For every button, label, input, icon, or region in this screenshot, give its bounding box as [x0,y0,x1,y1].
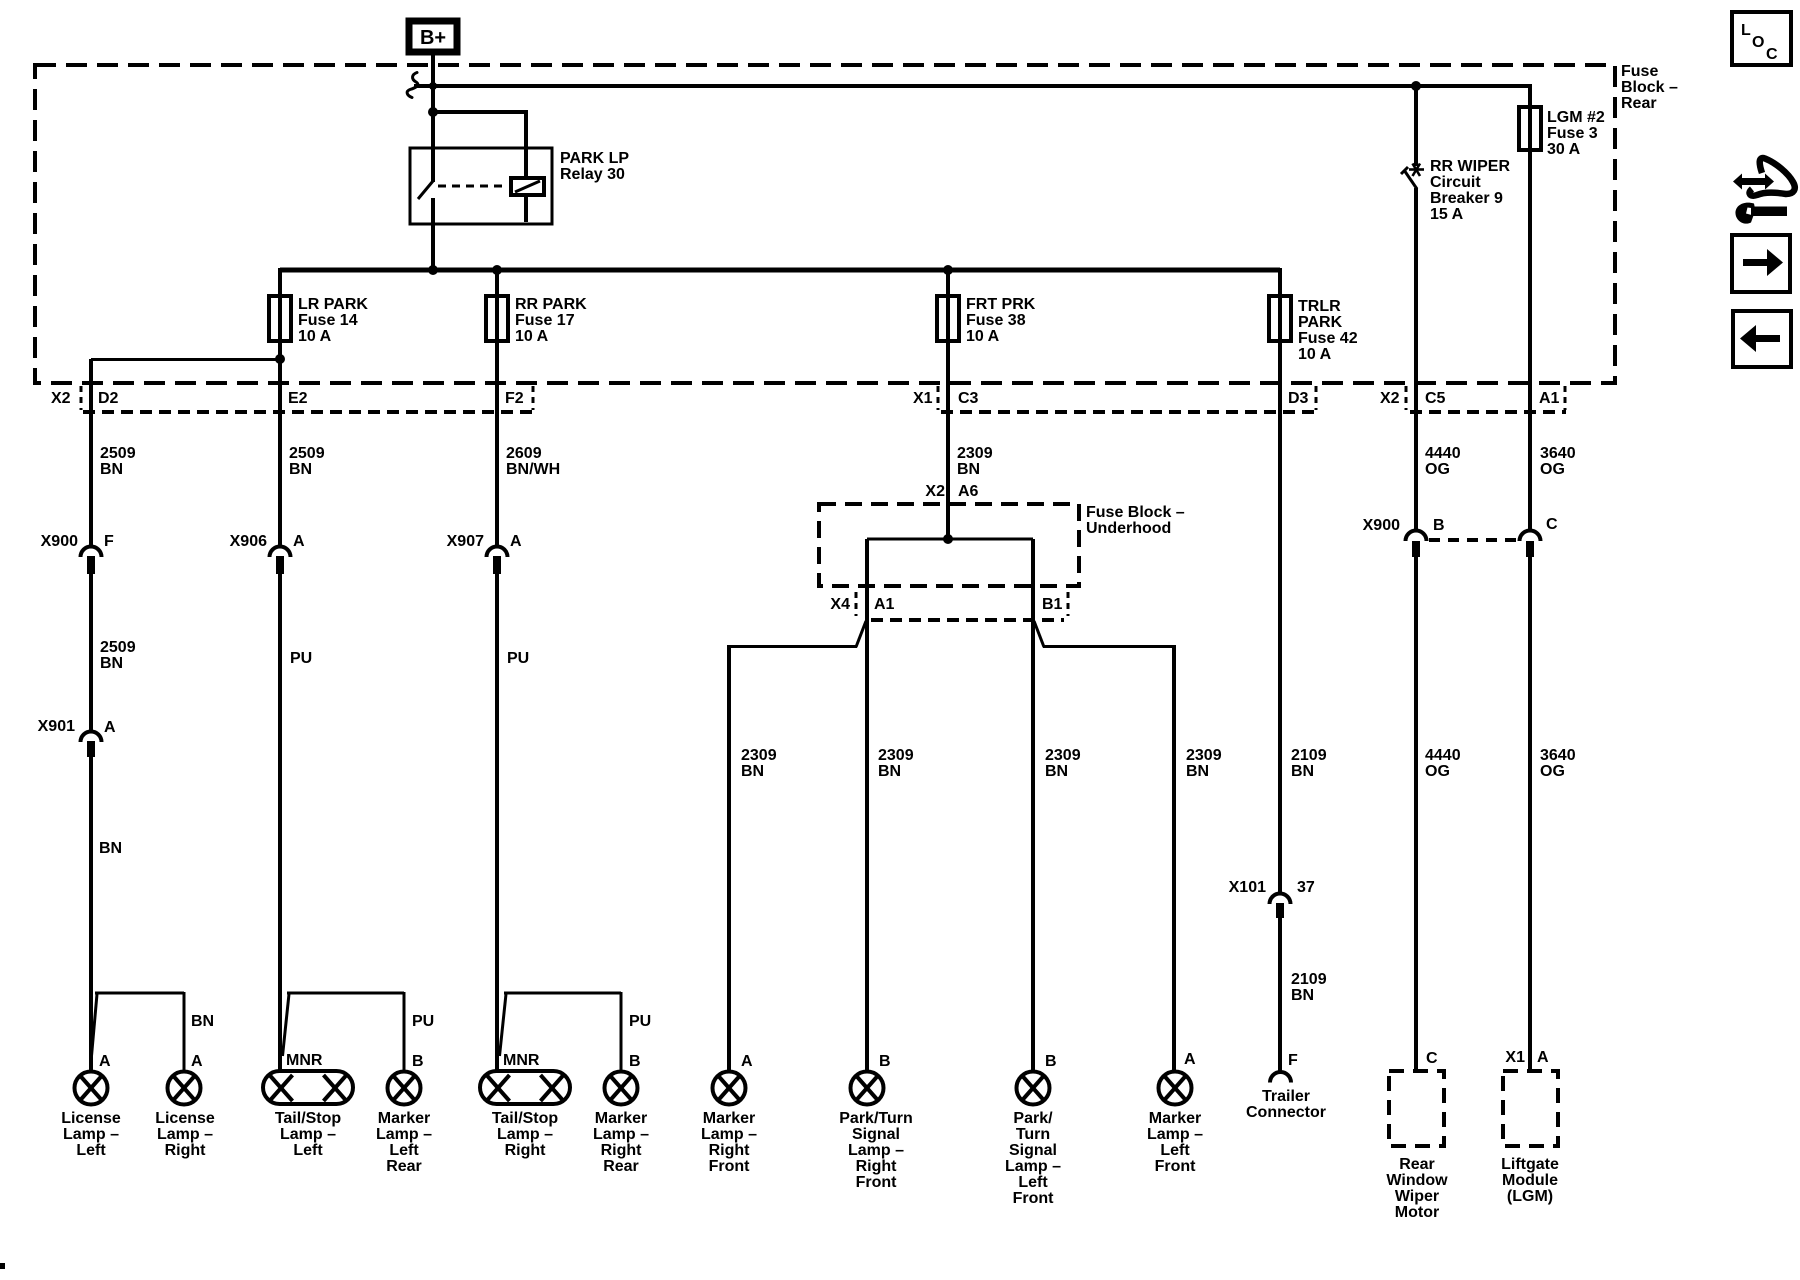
svg-text:X4: X4 [830,596,850,613]
wire splice diagonal tail/stop right [500,994,507,1056]
Fuse Block - Underhood label [1086,504,1185,537]
svg-text:Tail/Stop: Tail/Stop [492,1110,559,1127]
junction underhood internal bus [943,534,953,544]
svg-text:2509: 2509 [289,445,325,462]
svg-text:Wiper: Wiper [1395,1188,1439,1205]
svg-text:Park/: Park/ [1013,1110,1053,1127]
svg-text:Lamp –: Lamp – [701,1126,757,1143]
svg-text:BN: BN [878,763,901,780]
svg-text:FRT PRK: FRT PRK [966,296,1036,313]
Trailer Connector label [1246,1088,1326,1121]
wire down to Marker Lamp Left Front [1172,645,1176,1072]
label 2309 BN marker left front [1186,747,1222,780]
svg-text:Marker: Marker [595,1110,647,1127]
connector divider after X4 [855,592,858,616]
Marker Lamp Left Front label [1147,1110,1203,1175]
connector X901 pin A inline [81,732,102,757]
svg-text:BN: BN [1291,987,1314,1004]
svg-text:D2: D2 [98,390,119,407]
svg-text:BN: BN [957,461,980,478]
Park/Turn Signal Lamp Left Front label [1005,1110,1061,1207]
trailer connector half-circle terminal [1270,1072,1291,1083]
lamp License Lamp Right [168,1072,201,1105]
wire circuit 2509 BN from E2 [278,359,282,545]
fuse FRT PRK Fuse 38 10A [937,296,959,341]
fuse LR PARK label [298,296,368,345]
connector divider after F2 [532,386,535,410]
relay actuation dashed link [438,185,508,188]
svg-text:Breaker 9: Breaker 9 [1430,190,1503,207]
svg-text:F: F [1288,1052,1298,1069]
wire bus to FRT PRK fuse [946,268,950,298]
connector X900 pin F inline [81,547,102,575]
wire fuse distribution bus [280,268,1280,273]
svg-text:BN: BN [100,655,123,672]
svg-text:F: F [104,533,114,550]
svg-text:10 A: 10 A [1298,346,1332,363]
lamp License Lamp Left [75,1072,108,1105]
relay PARK LP Relay 30 box [410,148,552,224]
lamp Marker Lamp Left Front [1159,1072,1192,1105]
svg-text:RR PARK: RR PARK [515,296,587,313]
svg-text:Lamp –: Lamp – [1147,1126,1203,1143]
junction B+ wire / feed bus [429,82,437,90]
junction feed bus / RR WIPER branch [1411,81,1421,91]
svg-text:BN/WH: BN/WH [506,461,560,478]
svg-text:Left: Left [1160,1142,1190,1159]
svg-text:BN: BN [191,1013,214,1030]
svg-text:Circuit: Circuit [1430,174,1481,191]
wire underhood bus to pin B1 [1031,539,1035,620]
svg-text:B: B [412,1053,424,1070]
lamp Tail/Stop Lamp Right dual filament [480,1071,570,1104]
svg-text:X907: X907 [447,533,484,550]
svg-text:E2: E2 [288,390,308,407]
svg-text:OG: OG [1540,461,1565,478]
connector X900 dashed tie B to C [1429,538,1516,542]
Park/Turn Signal Lamp Right Front label [839,1110,913,1191]
svg-text:B: B [629,1053,641,1070]
wire circuit 2509 BN from D2 [89,359,93,545]
svg-text:Lamp –: Lamp – [593,1126,649,1143]
label 2509 BN column E2 [289,445,325,478]
svg-text:Connector: Connector [1246,1104,1326,1121]
svg-text:TRLR: TRLR [1298,298,1341,315]
wire 3640 OG to liftgate module [1528,557,1532,1071]
label 2309 BN park/turn right front [878,747,914,780]
connector X907 pin A inline [487,547,508,575]
svg-text:Signal: Signal [1009,1142,1057,1159]
relay PARK LP Relay 30 label [560,150,629,183]
wire 2509 BN between X900 and X901 [89,574,93,730]
wire down to Marker Lamp Left Rear [403,992,406,1072]
svg-text:10 A: 10 A [515,328,549,345]
svg-text:A: A [741,1053,753,1070]
svg-text:Right: Right [856,1158,898,1175]
label 2109 BN upper [1291,747,1327,780]
svg-text:Lamp –: Lamp – [497,1126,553,1143]
junction relay coil branch [428,107,438,117]
svg-text:X901: X901 [38,718,75,735]
lamp Marker Lamp Left Rear [388,1072,421,1105]
svg-text:X2: X2 [925,483,945,500]
wire down to Marker Lamp Right Front [727,645,731,1072]
wire 2109 BN to trailer connector [1278,917,1282,1071]
wire 2309 BN to Park/Turn Left Front [1031,620,1035,1072]
connector X900 pin C inline [1520,531,1541,558]
stray print speck bottom-left [0,1263,5,1269]
label 2609 BN/WH column F2 [506,445,560,478]
wire break squiggle at left end of B+ feed bus [407,73,418,98]
svg-text:Fuse Block –: Fuse Block – [1086,504,1185,521]
svg-text:LGM #2: LGM #2 [1547,109,1605,126]
svg-text:A: A [293,533,305,550]
wire breaker output to connector C5 [1414,188,1418,530]
svg-text:X2: X2 [1380,390,1400,407]
svg-text:BN: BN [741,763,764,780]
svg-text:Right: Right [601,1142,643,1159]
wire branch to Marker Lamp Right Front [729,645,857,648]
svg-text:2309: 2309 [1045,747,1081,764]
svg-text:Marker: Marker [1149,1110,1201,1127]
svg-text:A: A [191,1053,203,1070]
svg-text:Right: Right [505,1142,547,1159]
svg-text:Lamp –: Lamp – [848,1142,904,1159]
svg-text:Lamp –: Lamp – [376,1126,432,1143]
svg-text:Fuse: Fuse [1621,63,1658,80]
svg-text:Motor: Motor [1395,1204,1439,1221]
fuse FRT PRK label [966,296,1036,345]
connector X906 pin A inline [270,547,291,575]
svg-text:PU: PU [290,650,312,667]
wire bus corner to TRLR PARK fuse [1278,268,1282,298]
svg-text:10 A: 10 A [966,328,1000,345]
svg-text:X900: X900 [41,533,78,550]
svg-text:Marker: Marker [703,1110,755,1127]
connector X101 pin 37 inline [1270,894,1291,919]
icon diagnostic wrench with arrows [1733,158,1795,224]
wire feed bus to circuit breaker [1414,86,1418,166]
svg-text:BN: BN [289,461,312,478]
connector divider after D3 [1315,386,1318,410]
svg-text:PARK LP: PARK LP [560,150,629,167]
svg-text:L: L [1741,22,1751,39]
svg-text:4440: 4440 [1425,445,1461,462]
svg-text:2309: 2309 [957,445,993,462]
svg-text:D3: D3 [1288,390,1309,407]
svg-text:B: B [1045,1053,1057,1070]
svg-text:X101: X101 [1229,879,1266,896]
svg-text:2509: 2509 [100,639,136,656]
svg-text:Marker: Marker [378,1110,430,1127]
svg-text:A6: A6 [958,483,979,500]
svg-text:OG: OG [1425,461,1450,478]
svg-text:Left: Left [1018,1174,1048,1191]
junction bus / RR PARK fuse [492,265,502,275]
component Rear Window Wiper Motor dashed box [1389,1071,1444,1146]
svg-text:30 A: 30 A [1547,141,1581,158]
svg-text:A: A [1184,1051,1196,1068]
svg-text:Fuse 17: Fuse 17 [515,312,575,329]
wire branch marker left rear horizontal [287,992,404,995]
wire circuit 2609 BN/WH from F2 [495,341,499,545]
svg-text:15 A: 15 A [1430,206,1464,223]
wire underhood internal bus [867,538,1033,541]
svg-text:OG: OG [1540,763,1565,780]
svg-text:Front: Front [1013,1190,1055,1207]
junction LR PARK output split [275,354,285,364]
svg-text:2609: 2609 [506,445,542,462]
svg-text:O: O [1752,34,1764,51]
svg-text:B: B [1433,517,1445,534]
svg-text:A: A [1537,1049,1549,1066]
Fuse Block - Rear dashed boundary box [35,65,1615,383]
icon forward arrow box [1732,235,1790,292]
fuse LGM #2 Fuse 3 30A [1519,107,1541,150]
svg-text:BN: BN [1045,763,1068,780]
label 2509 BN mid left [100,639,136,672]
svg-text:2509: 2509 [100,445,136,462]
wire branch license right horizontal [95,992,184,995]
svg-text:OG: OG [1425,763,1450,780]
svg-text:A: A [104,719,116,736]
svg-text:MNR: MNR [286,1052,323,1069]
wire branch to Marker Lamp Left Front [1043,645,1174,648]
connector X900 pin B inline [1406,531,1427,558]
svg-text:Liftgate: Liftgate [1501,1156,1559,1173]
svg-text:Underhood: Underhood [1086,520,1171,537]
svg-text:Right: Right [709,1142,751,1159]
Rear Window Wiper Motor label [1386,1156,1448,1221]
svg-text:License: License [155,1110,215,1127]
svg-text:Relay 30: Relay 30 [560,166,625,183]
wire 2309 BN to Park/Turn Right Front [865,620,869,1072]
Tail/Stop Lamp Right label [492,1110,559,1159]
wire LGM fuse output to connector A1 [1528,148,1532,530]
wire down to Marker Lamp Right Rear [620,992,623,1072]
svg-text:C: C [1426,1050,1438,1067]
svg-text:A: A [99,1053,111,1070]
svg-text:Window: Window [1386,1172,1448,1189]
power terminal B+ [409,21,457,52]
svg-text:Block –: Block – [1621,79,1678,96]
lamp Marker Lamp Right Front [713,1072,746,1105]
svg-text:Lamp –: Lamp – [63,1126,119,1143]
wire splice diagonal B1 to marker branch [1034,621,1044,647]
svg-text:2109: 2109 [1291,971,1327,988]
fuse TRLR PARK label [1298,298,1358,363]
svg-text:2309: 2309 [878,747,914,764]
svg-text:Fuse 38: Fuse 38 [966,312,1026,329]
fuse LR PARK Fuse 14 10A [269,296,291,341]
wire circuit 2109 BN from D3 [1278,341,1282,892]
label 2309 BN marker right front [741,747,777,780]
svg-text:Left: Left [76,1142,106,1159]
svg-text:BN: BN [1186,763,1209,780]
svg-text:B: B [879,1053,891,1070]
svg-text:X1: X1 [1505,1049,1525,1066]
svg-text:B1: B1 [1042,596,1063,613]
wire bus to RR PARK fuse [495,268,499,298]
label 2109 BN lower [1291,971,1327,1004]
wire bus to LR PARK fuse [278,268,282,298]
svg-text:X2: X2 [51,390,71,407]
lamp Park/Turn Signal Lamp Right Front [851,1072,884,1105]
Fuse Block - Underhood dashed box [819,504,1079,586]
lamp Park/Turn Signal Lamp Left Front [1017,1072,1050,1105]
svg-text:Trailer: Trailer [1262,1088,1310,1105]
svg-text:B+: B+ [420,27,446,49]
svg-text:2309: 2309 [741,747,777,764]
svg-text:(LGM): (LGM) [1507,1188,1553,1205]
lamp Marker Lamp Right Rear [605,1072,638,1105]
junction bus / FRT PRK fuse [943,265,953,275]
Tail/Stop Lamp Left label [275,1110,342,1159]
svg-text:Lamp –: Lamp – [157,1126,213,1143]
wire BN to License Lamp Left [89,757,93,1072]
svg-text:Turn: Turn [1016,1126,1050,1143]
connector divider after A1 [1564,386,1567,410]
label 2309 BN park/turn left front [1045,747,1081,780]
svg-text:A1: A1 [1539,390,1560,407]
label 4440 OG upper [1425,445,1461,478]
label 3640 OG lower [1540,747,1576,780]
svg-text:Right: Right [165,1142,207,1159]
svg-text:Signal: Signal [852,1126,900,1143]
svg-text:Tail/Stop: Tail/Stop [275,1110,342,1127]
svg-text:MNR: MNR [503,1052,540,1069]
svg-text:Park/Turn: Park/Turn [839,1110,913,1127]
svg-text:Lamp –: Lamp – [280,1126,336,1143]
label 3640 OG upper [1540,445,1576,478]
svg-text:F2: F2 [505,390,524,407]
wire relay switch output [431,198,435,270]
wire PU to Tail/Stop Lamp Right [495,574,499,1072]
wire branch to relay coil [433,112,526,222]
connector row bottom dotted line right group [1410,410,1566,414]
circuit breaker RR WIPER Circuit Breaker 9 15A [1401,164,1424,190]
connector row bottom dotted line middle group [941,410,1318,414]
svg-text:Rear: Rear [386,1158,422,1175]
connector divider after X1 [937,386,940,410]
component Liftgate Module LGM dashed box [1503,1071,1558,1146]
label 2509 BN upper left [100,445,136,478]
wire underhood bus to pin A1 [865,539,869,620]
svg-text:Front: Front [1155,1158,1197,1175]
svg-text:BN: BN [100,461,123,478]
svg-text:Fuse 3: Fuse 3 [1547,125,1598,142]
wire circuit 2309 BN from C3 to underhood [946,341,950,540]
svg-text:X1: X1 [913,390,933,407]
svg-text:3640: 3640 [1540,445,1576,462]
wire LR PARK fuse output [278,339,282,360]
fuse LGM #2 label [1547,109,1605,158]
wire feed bus corner to LGM fuse [1528,84,1532,109]
lamp Tail/Stop Lamp Left dual filament [263,1071,353,1104]
relay coil element [511,178,544,195]
svg-text:PU: PU [629,1013,651,1030]
License Lamp Right label [155,1110,215,1159]
svg-text:PU: PU [507,650,529,667]
svg-text:C: C [1546,516,1558,533]
svg-text:Rear: Rear [603,1158,639,1175]
svg-text:Fuse 42: Fuse 42 [1298,330,1358,347]
svg-text:Fuse 14: Fuse 14 [298,312,358,329]
connector divider after X2 right [1405,386,1408,410]
wire B+ feed bus (horizontal) [414,84,1530,88]
svg-text:Module: Module [1502,1172,1558,1189]
wire branch marker right rear horizontal [504,992,621,995]
svg-text:BN: BN [99,840,122,857]
svg-text:Left: Left [389,1142,419,1159]
svg-text:Front: Front [856,1174,898,1191]
wire 4440 OG to wiper motor [1414,557,1418,1071]
svg-text:LR PARK: LR PARK [298,296,368,313]
relay switch blade [418,181,433,199]
svg-text:37: 37 [1297,879,1315,896]
svg-text:A: A [510,533,522,550]
svg-text:C5: C5 [1425,390,1446,407]
svg-text:Rear: Rear [1621,95,1657,112]
svg-text:License: License [61,1110,121,1127]
svg-text:A1: A1 [874,596,895,613]
Marker Lamp Right Rear label [593,1110,649,1175]
connector row bottom dotted line left group [83,410,533,414]
svg-text:Front: Front [709,1158,751,1175]
svg-text:BN: BN [1291,763,1314,780]
svg-text:PU: PU [412,1013,434,1030]
fuse RR PARK Fuse 17 10A [486,296,508,341]
svg-text:Lamp –: Lamp – [1005,1158,1061,1175]
wire PU to Tail/Stop Lamp Left [278,574,282,1072]
label 2309 BN column C3 [957,445,993,478]
svg-text:Rear: Rear [1399,1156,1435,1173]
wire splice diagonal license left [92,994,98,1056]
svg-text:3640: 3640 [1540,747,1576,764]
svg-text:10 A: 10 A [298,328,332,345]
connector divider after X2 [80,386,83,410]
svg-text:2109: 2109 [1291,747,1327,764]
svg-text:2309: 2309 [1186,747,1222,764]
svg-text:4440: 4440 [1425,747,1461,764]
svg-text:X900: X900 [1363,517,1400,534]
icon LOC legend box [1732,12,1791,65]
fuse TRLR PARK Fuse 42 10A [1269,296,1291,341]
Fuse Block - Rear label [1621,63,1678,112]
Liftgate Module label [1501,1156,1559,1205]
connector divider after B1 [1067,592,1070,616]
junction relay output / bus [428,265,438,275]
svg-text:PARK: PARK [1298,314,1343,331]
svg-text:C3: C3 [958,390,979,407]
fuse RR PARK label [515,296,587,345]
circuit breaker label [1430,158,1510,223]
icon back arrow box [1733,311,1791,367]
wire branch to connector D2 [91,358,280,361]
underhood connector row dotted line [871,618,1064,622]
Marker Lamp Left Rear label [376,1110,432,1175]
svg-text:Left: Left [293,1142,323,1159]
wire splice diagonal A1 to marker branch [856,621,866,647]
wire B+ down to relay switch [431,52,435,182]
wire splice diagonal tail/stop left [283,994,290,1056]
svg-text:C: C [1766,46,1778,63]
wire down to License Lamp Right [183,992,186,1072]
svg-text:X906: X906 [230,533,267,550]
Marker Lamp Right Front label [701,1110,757,1175]
label 4440 OG lower [1425,747,1461,780]
svg-text:RR WIPER: RR WIPER [1430,158,1510,175]
